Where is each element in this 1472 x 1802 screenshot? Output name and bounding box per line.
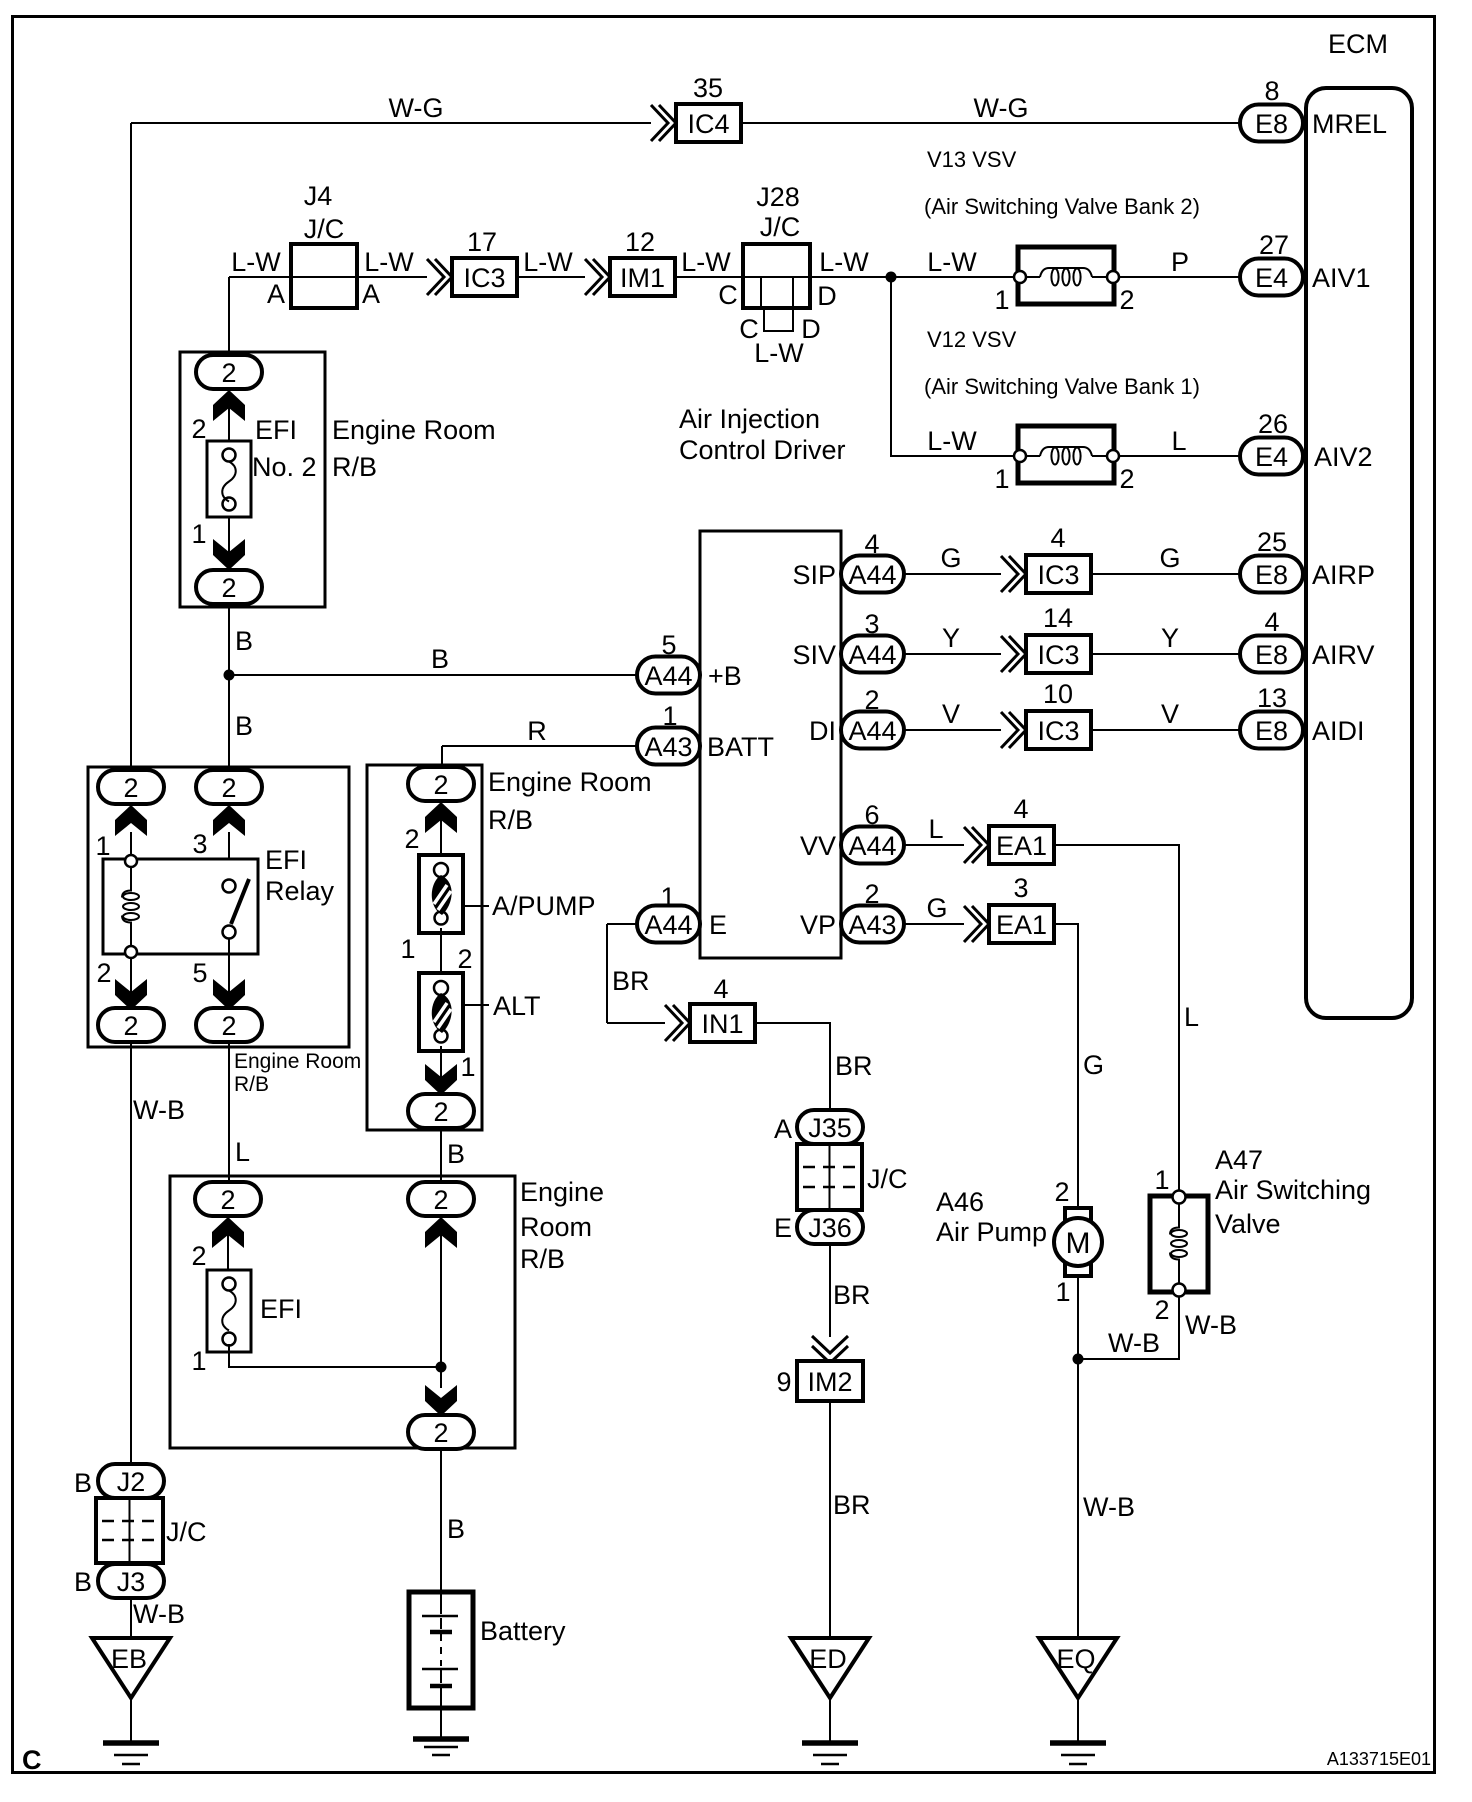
svg-text:EQ: EQ	[1056, 1644, 1095, 1674]
wire L-W from J28 to V13 VSV	[810, 276, 1014, 278]
svg-text:R/B: R/B	[234, 1073, 269, 1096]
relay switch terminal (pin 5)	[223, 926, 236, 939]
fuse block cavity oval 2 (bottom)	[408, 1415, 474, 1449]
V12 pin 1 terminal	[1014, 450, 1026, 462]
wire BR from IM2 to ED ground	[829, 1401, 831, 1638]
wire G to ECM E8	[1091, 573, 1240, 575]
svg-text:IN1: IN1	[701, 1009, 743, 1039]
connector IC3 pin 10	[1026, 711, 1091, 749]
wire L from EA1 to A47 valve	[1054, 845, 1179, 1191]
svg-text:+B: +B	[708, 661, 742, 691]
wire L-W from J4 to IC3	[357, 276, 427, 278]
Engine Room R/B box with EFI fuse	[170, 1176, 515, 1448]
svg-text:E8: E8	[1255, 560, 1288, 590]
svg-text:4: 4	[1013, 794, 1028, 824]
svg-text:V: V	[942, 699, 960, 729]
ECM connector E8 pin 4	[1240, 636, 1303, 673]
block cavity oval 2 (top)	[408, 767, 474, 801]
svg-text:Air Switching: Air Switching	[1215, 1175, 1371, 1205]
wire between links	[440, 928, 442, 973]
svg-text:EFI: EFI	[260, 1294, 302, 1324]
svg-text:L: L	[235, 1137, 250, 1167]
svg-text:No. 2: No. 2	[252, 452, 317, 482]
svg-text:10: 10	[1043, 679, 1073, 709]
connector arrow out of fuse	[213, 539, 245, 570]
svg-text:13: 13	[1257, 683, 1287, 713]
svg-text:2: 2	[123, 1011, 138, 1041]
svg-text:2: 2	[433, 1418, 448, 1448]
wire R into block	[441, 746, 443, 768]
wire to A/PUMP link	[440, 816, 442, 855]
air pump motor A46	[1054, 1208, 1102, 1276]
svg-text:J36: J36	[808, 1213, 852, 1243]
svg-text:E8: E8	[1255, 640, 1288, 670]
junction node in fuse block	[436, 1362, 447, 1373]
svg-text:ECM: ECM	[1328, 29, 1388, 59]
fuse block cavity oval 2 (bottom)	[196, 570, 262, 604]
junction connector J/C (J35-J36)	[797, 1144, 862, 1210]
connector arrow (relay pin 5)	[213, 979, 245, 1010]
svg-text:IC3: IC3	[1037, 716, 1079, 746]
svg-text:2: 2	[191, 414, 206, 444]
svg-text:L-W: L-W	[927, 247, 977, 277]
svg-text:A46: A46	[936, 1187, 984, 1217]
wire from relay coil to pin 2	[130, 958, 132, 1010]
svg-text:EA1: EA1	[996, 910, 1047, 940]
ECM connector E8 pin 8	[1240, 105, 1303, 142]
svg-text:IC3: IC3	[463, 263, 505, 293]
svg-text:Room: Room	[520, 1212, 592, 1242]
splice arrow into IM1	[585, 259, 610, 295]
connector A43 pin 1 (BATT)	[637, 728, 700, 765]
svg-text:AIRV: AIRV	[1312, 640, 1375, 670]
wire to EFI fuse	[227, 1231, 229, 1270]
svg-text:4: 4	[864, 529, 879, 559]
ALT label tick	[463, 1004, 489, 1006]
svg-text:B: B	[235, 626, 253, 656]
splice arrow into EA1	[964, 827, 989, 863]
svg-text:Y: Y	[942, 623, 960, 653]
ECM connector E4 pin 26	[1240, 438, 1303, 475]
svg-text:2: 2	[404, 824, 419, 854]
svg-text:L-W: L-W	[681, 247, 731, 277]
svg-text:A44: A44	[644, 910, 692, 940]
svg-text:A43: A43	[848, 910, 896, 940]
svg-text:35: 35	[693, 73, 723, 103]
svg-text:A44: A44	[848, 831, 896, 861]
svg-text:A133715E01: A133715E01	[1327, 1749, 1431, 1769]
svg-text:9: 9	[776, 1367, 791, 1397]
svg-text:12: 12	[625, 227, 655, 257]
connector arrow (right)	[425, 1217, 457, 1248]
svg-text:V12 VSV: V12 VSV	[927, 327, 1017, 352]
svg-text:J28: J28	[756, 182, 800, 212]
svg-text:2: 2	[191, 1241, 206, 1271]
connector A44 pin 2 (AIDI drive)	[841, 712, 904, 749]
svg-text:M: M	[1066, 1227, 1091, 1260]
svg-text:2: 2	[433, 1097, 448, 1127]
connector arrow into block	[425, 802, 457, 833]
svg-text:E: E	[709, 910, 727, 940]
connector arrow (left)	[212, 1217, 244, 1248]
svg-text:E4: E4	[1255, 442, 1288, 472]
svg-text:L-W: L-W	[523, 247, 573, 277]
ground EB	[92, 1638, 170, 1764]
svg-text:J2: J2	[117, 1467, 146, 1497]
svg-text:(Air Switching Valve Bank 1): (Air Switching Valve Bank 1)	[924, 374, 1200, 399]
svg-text:W-B: W-B	[1108, 1328, 1160, 1358]
svg-text:Valve: Valve	[1215, 1209, 1281, 1239]
svg-text:14: 14	[1043, 603, 1073, 633]
svg-text:BATT: BATT	[707, 732, 774, 762]
svg-text:3: 3	[864, 609, 879, 639]
junction connector oval J3	[98, 1564, 164, 1598]
EFI relay internal box	[103, 859, 258, 954]
svg-text:EB: EB	[111, 1644, 147, 1674]
svg-text:1: 1	[460, 1052, 475, 1082]
splice arrow into EA1	[964, 906, 989, 942]
connector arrow (relay pin 1)	[115, 805, 147, 836]
wire BR from J36 to IM2	[829, 1244, 831, 1337]
svg-text:ED: ED	[809, 1644, 847, 1674]
splice arrow into IC3	[1001, 712, 1026, 748]
connector arrow (relay pin 3)	[213, 805, 245, 836]
svg-text:Relay: Relay	[265, 876, 335, 906]
wire V to IC3	[904, 729, 1001, 731]
svg-text:17: 17	[467, 227, 497, 257]
svg-text:1: 1	[662, 701, 677, 731]
svg-text:G: G	[1159, 543, 1180, 573]
svg-text:A: A	[267, 279, 285, 309]
junction node of L-W branch	[886, 272, 897, 283]
fuse block cavity oval 2 (top)	[196, 355, 262, 389]
svg-text:1: 1	[191, 519, 206, 549]
connector IC3 pin 17	[452, 258, 517, 296]
svg-text:L: L	[1171, 426, 1186, 456]
wire B to A44 +B	[229, 674, 637, 676]
svg-text:W-B: W-B	[1185, 1310, 1237, 1340]
valve terminal 1	[1173, 1191, 1186, 1204]
svg-text:2: 2	[1119, 464, 1134, 494]
svg-text:Battery: Battery	[480, 1616, 566, 1646]
svg-text:R/B: R/B	[520, 1244, 565, 1274]
svg-text:E8: E8	[1255, 109, 1288, 139]
svg-text:2: 2	[96, 958, 111, 988]
connector IM1 pin 12	[610, 258, 675, 296]
svg-text:EA1: EA1	[996, 831, 1047, 861]
fusible link A/PUMP	[419, 855, 463, 933]
A/PUMP label tick	[463, 905, 489, 907]
svg-text:3: 3	[1013, 873, 1028, 903]
svg-text:G: G	[1083, 1050, 1104, 1080]
svg-text:W-G: W-G	[389, 93, 444, 123]
svg-text:5: 5	[661, 630, 676, 660]
svg-text:SIV: SIV	[792, 640, 836, 670]
connector IN1 pin 4	[690, 1004, 755, 1042]
svg-text:D: D	[817, 281, 837, 311]
relay switch terminal (pin 3)	[223, 880, 236, 893]
svg-text:A: A	[774, 1114, 792, 1144]
svg-text:1: 1	[1055, 1277, 1070, 1307]
connector IC3 pin 14	[1026, 635, 1091, 673]
fuse block cavity oval 2 (right)	[408, 1182, 474, 1216]
svg-text:EFI: EFI	[265, 845, 307, 875]
wire G from EA1 to air pump motor	[1054, 924, 1078, 1208]
wire BR from IN1 to J35	[755, 1023, 830, 1110]
svg-text:E4: E4	[1255, 263, 1288, 293]
svg-text:1: 1	[994, 285, 1009, 315]
svg-text:L-W: L-W	[819, 247, 869, 277]
relay coil terminal (pin 1)	[125, 855, 137, 867]
svg-text:A44: A44	[644, 661, 692, 691]
svg-text:2: 2	[864, 879, 879, 909]
svg-text:B: B	[74, 1468, 92, 1498]
svg-text:W-B: W-B	[133, 1095, 185, 1125]
wire L-W from IM1 to J28	[675, 276, 743, 278]
svg-text:J4: J4	[304, 181, 333, 211]
wire L-W into J4	[229, 276, 291, 278]
svg-text:C: C	[718, 280, 738, 310]
svg-text:R/B: R/B	[488, 805, 533, 835]
V12 VSV (Air Switching Valve Bank 1)	[1018, 426, 1114, 483]
svg-text:A47: A47	[1215, 1145, 1263, 1175]
wire W-B from J3 to EB ground	[130, 1598, 132, 1638]
svg-text:26: 26	[1258, 409, 1288, 439]
svg-text:2: 2	[433, 770, 448, 800]
svg-text:W-B: W-B	[1083, 1492, 1135, 1522]
svg-text:BR: BR	[835, 1051, 873, 1081]
svg-text:J3: J3	[117, 1567, 146, 1597]
svg-text:5: 5	[192, 958, 207, 988]
wire W-G from IC4 to ECM E8	[741, 122, 1240, 124]
wire W-G from MREL relay branch to IC4	[131, 122, 651, 124]
svg-text:Engine Room: Engine Room	[488, 767, 652, 797]
svg-text:A44: A44	[848, 716, 896, 746]
wire to relay coil	[130, 832, 132, 861]
splice arrow into IC3	[427, 259, 452, 295]
connector A44 pin 1 (E)	[637, 906, 700, 943]
svg-text:Engine: Engine	[520, 1177, 604, 1207]
ECM connector E8 pin 25	[1240, 556, 1303, 593]
Engine Room R/B box with A/PUMP and ALT fusible links	[367, 765, 482, 1130]
svg-text:1: 1	[1154, 1165, 1169, 1195]
svg-text:A44: A44	[848, 560, 896, 590]
svg-text:E8: E8	[1255, 716, 1288, 746]
ECM connector E8 pin 13	[1240, 712, 1303, 749]
svg-text:J/C: J/C	[760, 212, 801, 242]
relay cavity oval 2 (top left)	[98, 770, 164, 804]
block cavity oval 2 (bottom)	[408, 1094, 474, 1128]
connector A44 pin 6 (VV)	[841, 827, 904, 864]
svg-text:IM2: IM2	[807, 1367, 852, 1397]
svg-text:B: B	[447, 1139, 465, 1169]
svg-text:2: 2	[221, 573, 236, 603]
ECM connector E4 pin 27	[1240, 259, 1303, 296]
Air Injection Control Driver block	[700, 531, 841, 958]
svg-text:L: L	[928, 814, 943, 844]
connector EA1 pin 4	[989, 826, 1054, 864]
relay cavity oval 2 (bottom right)	[196, 1008, 262, 1042]
svg-text:Engine Room: Engine Room	[234, 1050, 361, 1073]
battery ground	[413, 1708, 469, 1755]
connector A44 pin 3 (AIRV drive)	[841, 636, 904, 673]
svg-text:G: G	[926, 893, 947, 923]
svg-text:2: 2	[433, 1185, 448, 1215]
wire L from VV	[904, 844, 964, 846]
relay cavity oval 2 (top right)	[196, 770, 262, 804]
svg-text:A/PUMP: A/PUMP	[492, 891, 596, 921]
svg-text:B: B	[235, 711, 253, 741]
splice arrow into IC4	[651, 105, 676, 141]
svg-text:Air Injection: Air Injection	[679, 404, 820, 434]
svg-text:27: 27	[1259, 230, 1289, 260]
wire L-W branch down to V12	[891, 277, 1014, 456]
svg-text:IM1: IM1	[620, 263, 665, 293]
wire inside EFI No.2 block (upper)	[228, 388, 230, 441]
svg-text:Air Pump: Air Pump	[936, 1217, 1047, 1247]
svg-text:3: 3	[192, 829, 207, 859]
wire: left vertical drop from W-G run to EFI relay coil	[130, 123, 132, 771]
svg-text:1: 1	[95, 831, 110, 861]
svg-text:W-B: W-B	[133, 1599, 185, 1629]
svg-text:4: 4	[1050, 523, 1065, 553]
wire W-B from valve to junction	[1078, 1296, 1179, 1359]
svg-text:B: B	[74, 1567, 92, 1597]
svg-text:G: G	[940, 543, 961, 573]
wire L from relay to EFI fuse block	[228, 1042, 230, 1182]
svg-text:2: 2	[1119, 285, 1134, 315]
connector EA1 pin 3	[989, 905, 1054, 943]
wire from relay switch to pin 5	[228, 938, 230, 1010]
svg-text:D: D	[801, 314, 821, 344]
svg-text:E: E	[774, 1213, 792, 1243]
wire B down to EFI fuse block	[440, 1128, 442, 1182]
fuse block cavity oval 2 (left)	[195, 1182, 261, 1216]
svg-text:L-W: L-W	[754, 338, 804, 368]
wire P from V13 to ECM E4	[1118, 276, 1240, 278]
svg-text:J/C: J/C	[867, 1164, 908, 1194]
svg-text:IC3: IC3	[1037, 560, 1079, 590]
svg-text:L-W: L-W	[231, 247, 281, 277]
svg-text:L-W: L-W	[927, 426, 977, 456]
connector arrow out of block	[425, 1064, 457, 1095]
wire G from VP	[904, 923, 964, 925]
connector A44 pin 4 (AIRP drive)	[841, 556, 904, 593]
air switching valve A47	[1150, 1196, 1208, 1292]
splice arrow into IC3	[1001, 636, 1026, 672]
wire Y to ECM E8	[1091, 653, 1240, 655]
V13 pin 1 terminal	[1014, 271, 1026, 283]
svg-text:2: 2	[1054, 1177, 1069, 1207]
svg-text:ALT: ALT	[493, 991, 541, 1021]
junction connector J28	[743, 244, 810, 331]
junction connector J/C (J2-J3)	[96, 1498, 163, 1563]
fusible link ALT	[419, 973, 463, 1051]
connector arrow (relay pin 2)	[115, 979, 147, 1010]
V12 pin 2 terminal	[1107, 450, 1119, 462]
svg-text:C: C	[22, 1745, 42, 1775]
svg-text:1: 1	[994, 464, 1009, 494]
svg-text:Y: Y	[1161, 623, 1179, 653]
svg-text:J/C: J/C	[304, 214, 345, 244]
wire R from Engine Room R/B to A43 BATT	[442, 745, 637, 747]
connector A44 pin 5 (+B)	[637, 657, 700, 694]
wire Y to IC3	[904, 653, 1001, 655]
connector IM2 pin 9	[797, 1361, 863, 1401]
EFI relay coil	[122, 867, 139, 946]
svg-text:8: 8	[1264, 76, 1279, 106]
ground ED	[791, 1638, 869, 1764]
svg-text:A43: A43	[644, 732, 692, 762]
A47 valve coil	[1170, 1203, 1187, 1284]
svg-text:2: 2	[220, 1185, 235, 1215]
svg-text:2: 2	[1154, 1295, 1169, 1325]
svg-text:6: 6	[864, 800, 879, 830]
valve terminal 2	[1173, 1284, 1186, 1297]
svg-text:Control Driver: Control Driver	[679, 435, 846, 465]
svg-text:R: R	[527, 716, 547, 746]
svg-text:(Air Switching Valve Bank 2): (Air Switching Valve Bank 2)	[924, 194, 1200, 219]
relay switch blade	[231, 879, 249, 924]
wire B from EFI No.2 fuse to EFI relay	[228, 604, 230, 771]
svg-text:A44: A44	[848, 640, 896, 670]
splice arrow into IC3	[1001, 556, 1026, 592]
connector IC4	[676, 104, 741, 142]
svg-text:VP: VP	[800, 910, 836, 940]
wire from EFI fuse to junction	[229, 1344, 441, 1367]
svg-text:1: 1	[400, 934, 415, 964]
svg-text:P: P	[1171, 247, 1189, 277]
connector arrow (bottom)	[425, 1385, 457, 1416]
junction node B	[224, 670, 235, 681]
svg-text:2: 2	[221, 1011, 236, 1041]
wire inside EFI No.2 block (lower)	[228, 517, 230, 570]
junction connector oval J2	[98, 1464, 164, 1498]
svg-text:W-G: W-G	[974, 93, 1029, 123]
svg-text:1: 1	[191, 1346, 206, 1376]
svg-text:B: B	[447, 1514, 465, 1544]
relay coil terminal (pin 2)	[125, 946, 137, 958]
fuse EFI	[207, 1270, 251, 1352]
svg-text:1: 1	[660, 882, 675, 912]
ECM block U1	[1306, 88, 1412, 1018]
svg-text:BR: BR	[833, 1280, 871, 1310]
svg-text:V13 VSV: V13 VSV	[927, 147, 1017, 172]
junction connector oval J35	[797, 1110, 863, 1144]
svg-text:J35: J35	[808, 1113, 852, 1143]
fuse EFI No. 2	[207, 441, 251, 517]
svg-text:2: 2	[864, 685, 879, 715]
svg-text:A: A	[362, 279, 380, 309]
svg-text:Engine Room: Engine Room	[332, 415, 496, 445]
Engine Room R/B box with EFI Relay	[88, 767, 349, 1047]
wire W-B from relay to J2	[130, 1042, 132, 1464]
wire to relay switch	[228, 832, 230, 882]
svg-text:IC4: IC4	[687, 109, 729, 139]
svg-text:2: 2	[221, 773, 236, 803]
svg-text:BR: BR	[833, 1490, 871, 1520]
wire from A44 E	[607, 923, 637, 925]
svg-text:AIV2: AIV2	[1314, 442, 1373, 472]
wire G to IC3	[904, 573, 1001, 575]
wire BR from A44 E to IN1	[607, 924, 665, 1023]
svg-text:2: 2	[123, 773, 138, 803]
wire V to ECM E8	[1091, 729, 1240, 731]
svg-text:SIP: SIP	[792, 560, 836, 590]
junction connector oval J36	[797, 1210, 863, 1244]
splice arrow into IM2	[812, 1336, 848, 1363]
svg-text:25: 25	[1257, 527, 1287, 557]
